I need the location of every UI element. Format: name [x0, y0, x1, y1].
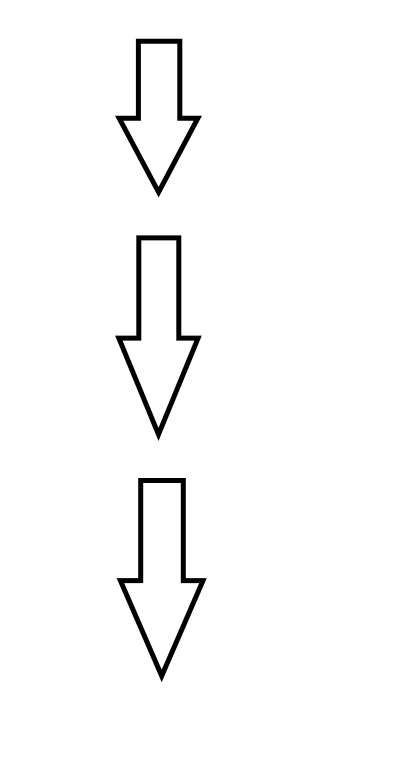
arrow 2 (middle down-arrow): [119, 238, 198, 435]
arrow 1 (top down-arrow): [119, 41, 198, 192]
arrow 3 (bottom down-arrow): [120, 481, 203, 676]
